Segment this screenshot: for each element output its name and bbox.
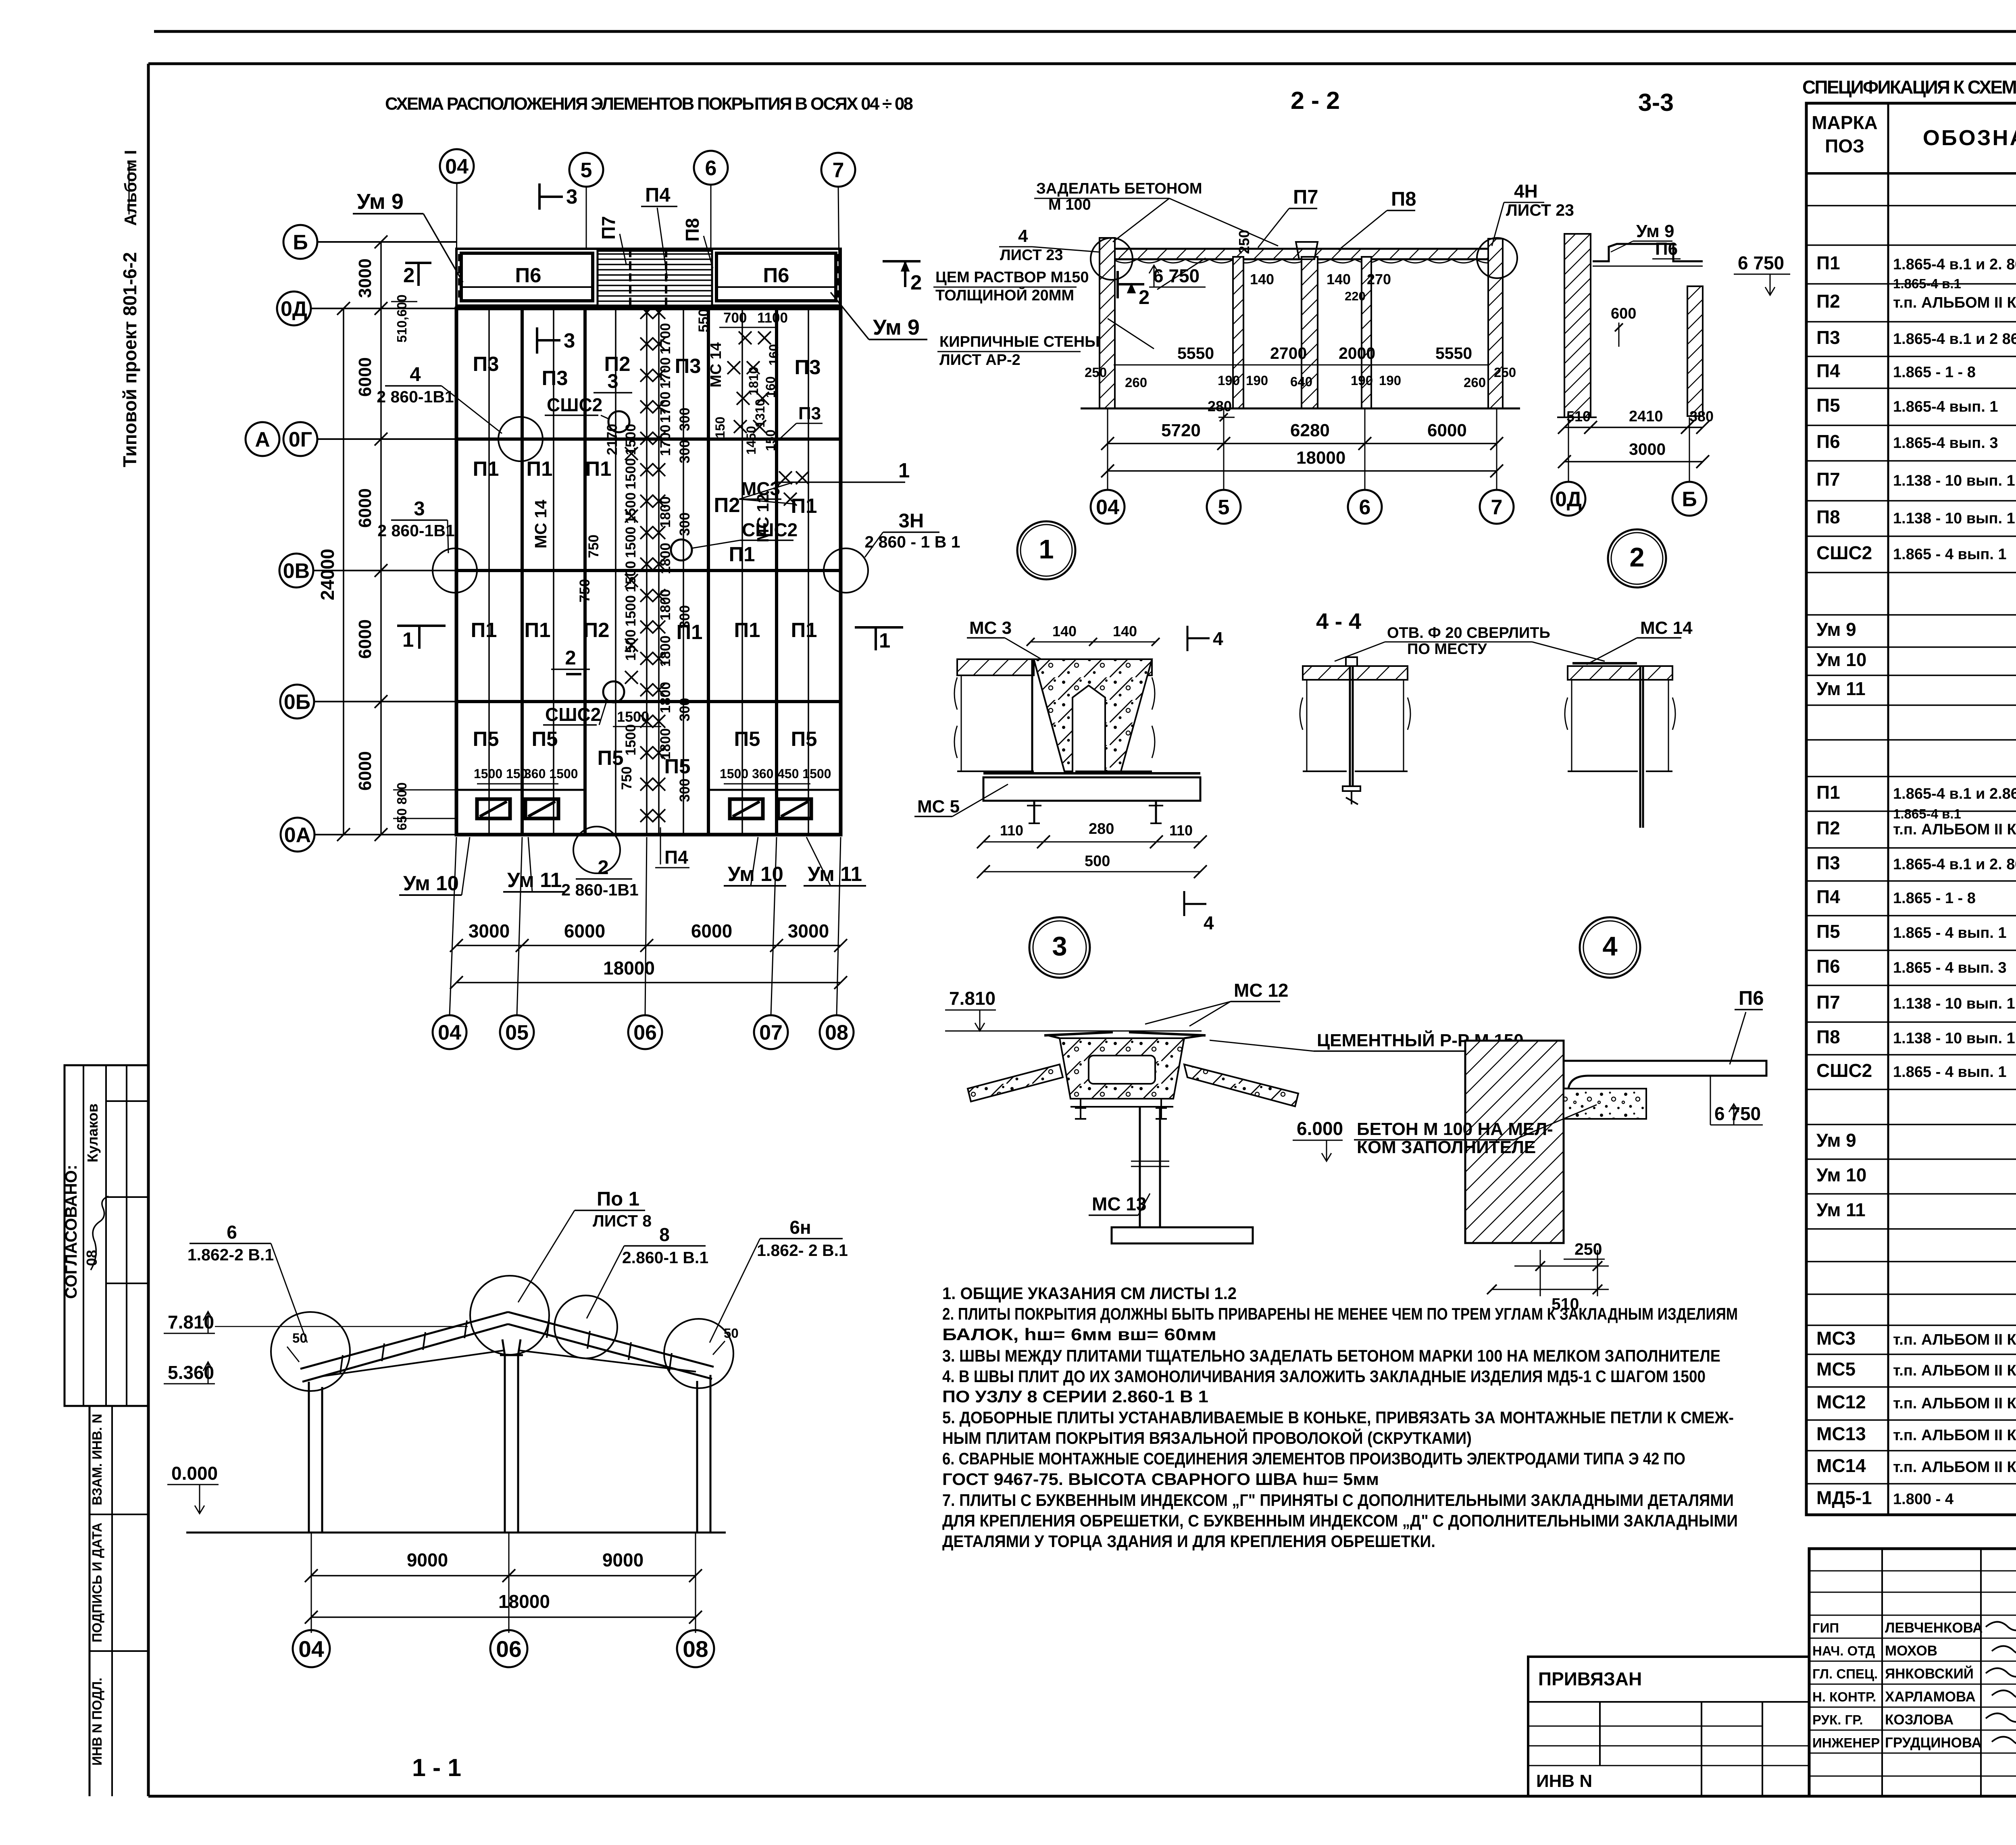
- svg-text:3: 3: [564, 329, 575, 352]
- bottom dimension chain 3000/6000/6000/3000: [456, 945, 841, 946]
- svg-text:П7: П7: [1293, 186, 1318, 208]
- svg-text:450 1500: 450 1500: [777, 766, 831, 781]
- svg-text:П1: П1: [1816, 782, 1840, 803]
- svg-text:П6: П6: [515, 264, 541, 287]
- svg-text:ЦЕМ РАСТВОР М150: ЦЕМ РАСТВОР М150: [935, 269, 1089, 286]
- svg-text:МС3: МС3: [1816, 1328, 1856, 1349]
- bolts under ridge: [1075, 1099, 1086, 1119]
- vertical drop lines to bottom axis circles: [450, 837, 456, 1015]
- dims 110/280/110/500: [983, 841, 1200, 843]
- svg-text:2 - 2: 2 - 2: [1291, 87, 1340, 114]
- svg-text:9000: 9000: [407, 1549, 448, 1570]
- svg-text:3: 3: [414, 498, 425, 520]
- svg-text:6.000: 6.000: [1297, 1118, 1343, 1139]
- row lines: [1806, 205, 2016, 206]
- section marker 1 left: [397, 625, 446, 627]
- svg-text:8: 8: [659, 1224, 670, 1245]
- svg-text:110: 110: [1169, 822, 1193, 839]
- svg-text:П8: П8: [1391, 188, 1416, 210]
- svg-text:1.865-4 вып. 3: 1.865-4 вып. 3: [1893, 435, 1998, 452]
- Привязан box: [1528, 1657, 1809, 1796]
- svg-text:ТОЛЩИНОЙ 20ММ: ТОЛЩИНОЙ 20ММ: [935, 286, 1074, 304]
- TITLE BLOCK (штамп): [1809, 1549, 2016, 1796]
- svg-text:110: 110: [1000, 822, 1023, 839]
- axis circle 0Б: [280, 685, 314, 718]
- svg-text:08: 08: [825, 1021, 848, 1045]
- svg-text:9000: 9000: [602, 1549, 644, 1570]
- svg-text:Типовой проект 801-6-2: Типовой проект 801-6-2: [119, 252, 140, 467]
- bottom axis circles 04 05 06 07 08: [433, 1015, 467, 1049]
- svg-text:270: 270: [1367, 271, 1391, 287]
- svg-text:1.865 - 4 вып. 1: 1.865 - 4 вып. 1: [1893, 925, 2007, 941]
- svg-text:МС13: МС13: [1816, 1423, 1866, 1444]
- svg-text:т.п. АЛЬБОМ II КЖИ: т.п. АЛЬБОМ II КЖИ МС3.000: [1893, 1331, 2016, 1348]
- svg-text:1.862-2 В.1: 1.862-2 В.1: [187, 1245, 274, 1264]
- svg-text:П5: П5: [473, 727, 499, 750]
- svg-text:5.360: 5.360: [168, 1362, 214, 1383]
- svg-text:ЛИСТ 8: ЛИСТ 8: [593, 1212, 652, 1230]
- svg-text:т.п. АЛЬБОМ II КЖИ-: т.п. АЛЬБОМ II КЖИ-МС5.000: [1893, 1362, 2016, 1379]
- svg-text:ПРИВЯЗАН: ПРИВЯЗАН: [1538, 1668, 1642, 1689]
- svg-text:1810: 1810: [746, 367, 761, 395]
- svg-text:КИРПИЧНЫЕ СТЕНЫ: КИРПИЧНЫЕ СТЕНЫ: [939, 333, 1100, 350]
- svg-text:750: 750: [619, 766, 635, 790]
- bottom chords (beam underside): [321, 1350, 505, 1376]
- svg-text:1310: 1310: [753, 399, 767, 427]
- svg-text:3. ШВЫ МЕЖДУ ПЛИТАМИ ТЩАТЕЛ: 3. ШВЫ МЕЖДУ ПЛИТАМИ ТЩАТЕЛЬНО ЗАДЕЛАТЬ …: [942, 1346, 1720, 1365]
- left roof plate: [957, 659, 1034, 675]
- svg-text:380: 380: [1689, 408, 1714, 425]
- svg-text:2700: 2700: [1270, 344, 1307, 362]
- axis circles 04 06 08: [293, 1630, 330, 1667]
- svg-text:П6: П6: [1655, 239, 1678, 259]
- svg-text:7.810: 7.810: [949, 988, 996, 1009]
- svg-text:1 - 1: 1 - 1: [412, 1754, 461, 1781]
- svg-text:МС 14: МС 14: [531, 500, 550, 548]
- approval box СОГЛАСОВАНО: [65, 1065, 148, 1406]
- svg-text:160: 160: [763, 376, 778, 398]
- node circle 2: [1608, 529, 1666, 587]
- thin plate joint lines: [488, 308, 490, 835]
- svg-text:2 860-1В1: 2 860-1В1: [561, 881, 638, 899]
- svg-text:140: 140: [1113, 623, 1137, 639]
- dims below 3-3: [1564, 427, 1703, 428]
- column lines: [1887, 103, 1889, 1515]
- svg-text:ПОДПИСЬ И ДАТА: ПОДПИСЬ И ДАТА: [90, 1522, 104, 1642]
- svg-text:Ум 11: Ум 11: [507, 868, 562, 891]
- node circle 1: [1017, 521, 1075, 579]
- svg-text:ИНВ N ПОДЛ.: ИНВ N ПОДЛ.: [90, 1678, 104, 1766]
- concrete pocket: [1564, 1089, 1646, 1119]
- support beam under ridge: [1070, 1106, 1173, 1108]
- svg-text:7: 7: [833, 159, 844, 182]
- right sloped roof slab: [1184, 1064, 1298, 1106]
- svg-text:250: 250: [1236, 230, 1252, 254]
- svg-text:190: 190: [1246, 373, 1268, 388]
- svg-text:Ум 9: Ум 9: [1636, 221, 1674, 241]
- svg-text:П5: П5: [1816, 921, 1840, 942]
- svg-text:0Б: 0Б: [284, 691, 310, 714]
- svg-text:П8: П8: [1816, 1027, 1840, 1047]
- svg-text:МС14: МС14: [1816, 1455, 1866, 1476]
- svg-text:НЫМ ПЛИТАМ ПОКРЫТИЯ ВЯЗАЛЬН: НЫМ ПЛИТАМ ПОКРЫТИЯ ВЯЗАЛЬНОЙ ПРОВОЛОКОЙ…: [942, 1428, 1472, 1447]
- svg-text:П3: П3: [794, 356, 821, 379]
- svg-text:2: 2: [403, 264, 414, 287]
- svg-text:1700: 1700: [658, 425, 673, 456]
- svg-text:5: 5: [1218, 496, 1230, 519]
- sheet top edge line: [154, 30, 2016, 33]
- svg-text:П3: П3: [1816, 852, 1840, 873]
- roof slabs (double chord lines): [300, 1312, 508, 1369]
- svg-text:2 860 - 1 В 1: 2 860 - 1 В 1: [864, 533, 960, 551]
- monolithic strip Ум9 outer contour: [456, 249, 841, 306]
- svg-text:ЛИСТ АР-2: ЛИСТ АР-2: [939, 352, 1020, 369]
- bottom support plate МС5: [983, 777, 1200, 801]
- svg-text:МС 14: МС 14: [708, 342, 725, 387]
- svg-text:150: 150: [763, 429, 778, 451]
- svg-text:ВЗАМ. ИНВ. N: ВЗАМ. ИНВ. N: [90, 1414, 104, 1505]
- node circle on right eave: [1477, 238, 1517, 278]
- embedded channel marks: [1031, 659, 1033, 771]
- svg-text:3000: 3000: [355, 258, 375, 298]
- svg-text:0А: 0А: [284, 824, 311, 847]
- svg-text:Ум 11: Ум 11: [1816, 678, 1866, 699]
- svg-text:0Д: 0Д: [1555, 488, 1582, 511]
- svg-text:П7: П7: [598, 216, 619, 240]
- svg-text:ДЛЯ КРЕПЛЕНИЯ ОБРЕШЕТКИ, С БУ: ДЛЯ КРЕПЛЕНИЯ ОБРЕШЕТКИ, С БУКВЕННЫМ ИНД…: [942, 1511, 1738, 1530]
- svg-text:т.п. АЛЬБОМ II КЖИ-: т.п. АЛЬБОМ II КЖИ- МС12.000: [1893, 1395, 2016, 1412]
- svg-text:1800: 1800: [658, 589, 673, 621]
- svg-text:07: 07: [759, 1021, 783, 1045]
- svg-text:П5: П5: [1816, 395, 1840, 416]
- svg-text:ПОЗ: ПОЗ: [1825, 135, 1864, 156]
- svg-text:640: 640: [1290, 374, 1312, 389]
- section mark 4 upper: [1187, 626, 1189, 651]
- svg-text:1500: 1500: [617, 708, 649, 725]
- svg-text:300: 300: [677, 605, 693, 629]
- svg-text:МАРКА: МАРКА: [1812, 112, 1878, 133]
- svg-text:140: 140: [1052, 623, 1077, 639]
- svg-text:А: А: [255, 428, 270, 452]
- ground line: [1081, 408, 1520, 410]
- svg-text:1800: 1800: [658, 635, 673, 667]
- right wall: [710, 1375, 712, 1533]
- axis row line 0В: [456, 569, 841, 572]
- П4 narrow strip joint lines with X marks: [646, 308, 648, 835]
- center column at axis 6 (with capital): [1302, 257, 1318, 408]
- svg-text:П2: П2: [714, 494, 740, 516]
- svg-text:5550: 5550: [1435, 344, 1472, 362]
- svg-text:4Н: 4Н: [1514, 181, 1538, 202]
- inventory strip (Взам.инв.N / Подпись и дата / Инв.N подл.): [89, 1406, 91, 1796]
- beam trapezoid with concrete speckle: [1034, 659, 1152, 771]
- svg-text:6 750: 6 750: [1714, 1103, 1761, 1124]
- svg-text:2410: 2410: [1629, 408, 1663, 425]
- svg-text:3: 3: [607, 371, 618, 392]
- svg-text:3-3: 3-3: [1638, 89, 1674, 116]
- svg-text:250: 250: [1085, 365, 1107, 380]
- svg-text:1.865 - 1 - 8: 1.865 - 1 - 8: [1893, 890, 1976, 907]
- plate anchor X marks, center strip: [640, 306, 653, 319]
- X marks in МС14 cluster top right: [739, 331, 752, 344]
- bottom dimension 18000: [456, 982, 841, 983]
- svg-text:1500: 1500: [623, 629, 639, 661]
- svg-text:1500: 1500: [623, 424, 639, 455]
- dim chain below 2-2: [1108, 443, 1497, 444]
- svg-text:П4: П4: [1816, 360, 1840, 381]
- svg-text:18000: 18000: [498, 1591, 550, 1612]
- П6 slab: [1564, 1061, 1766, 1089]
- svg-text:МС 14: МС 14: [1640, 618, 1693, 638]
- svg-text:6. СВАРНЫЕ МОНТАЖНЫЕ СОЕДИНЕ: 6. СВАРНЫЕ МОНТАЖНЫЕ СОЕДИНЕНИЯ ЭЛЕМЕНТО…: [942, 1449, 1685, 1468]
- dim chain 9000/9000: [311, 1533, 312, 1633]
- ground line: [186, 1532, 726, 1534]
- svg-text:0.000: 0.000: [171, 1463, 218, 1484]
- svg-text:СОГЛАСОВАНО:: СОГЛАСОВАНО:: [62, 1165, 80, 1299]
- svg-text:6000: 6000: [355, 751, 375, 791]
- axis circles below 2-2: [1107, 408, 1108, 489]
- svg-text:ЛИСТ 23: ЛИСТ 23: [1506, 201, 1574, 219]
- wall at axis 5: [1233, 257, 1243, 408]
- svg-text:П6: П6: [1816, 956, 1840, 977]
- svg-text:П4: П4: [664, 847, 688, 868]
- svg-text:БАЛОК, hш= 6мм вш= 60мм: БАЛОК, hш= 6мм вш= 60мм: [942, 1325, 1216, 1344]
- svg-text:Ум 9: Ум 9: [873, 315, 920, 339]
- svg-text:3Н: 3Н: [899, 510, 924, 532]
- svg-text:700: 700: [723, 310, 747, 326]
- svg-text:190: 190: [1379, 373, 1401, 388]
- svg-text:1500 360: 1500 360: [720, 766, 773, 781]
- svg-text:1.865-4 в.1 и 2.860-4.050 л.50: 1.865-4 в.1 и 2.860-4.050 л.50: [1893, 785, 2016, 802]
- svg-text:ЛИСТ 23: ЛИСТ 23: [1000, 247, 1063, 264]
- svg-text:ГОСТ 9467-75. ВЫСОТА СВАРНОГ: ГОСТ 9467-75. ВЫСОТА СВАРНОГО ШВА hш= 5м…: [942, 1470, 1379, 1489]
- svg-text:1: 1: [1039, 534, 1054, 564]
- svg-text:6 750: 6 750: [1738, 252, 1784, 273]
- svg-text:1. ОБЩИЕ УКАЗАНИЯ СМ ЛИСТЫ: 1. ОБЩИЕ УКАЗАНИЯ СМ ЛИСТЫ 1.2: [942, 1284, 1237, 1303]
- svg-text:СШС2: СШС2: [547, 394, 602, 415]
- svg-text:3000: 3000: [1629, 440, 1666, 458]
- svg-text:140: 140: [1250, 271, 1274, 287]
- svg-text:т.п. АЛЬБОМ II КЖИ-П2.00: т.п. АЛЬБОМ II КЖИ-П2.000: [1893, 821, 2016, 838]
- svg-text:НАЧ. ОТД: НАЧ. ОТД: [1812, 1643, 1875, 1658]
- plate field outline: [456, 308, 841, 835]
- left fixing: plates + vertical anchor: [1303, 666, 1408, 680]
- node circle 3: [1029, 917, 1090, 978]
- П5 bottom monolithic strip lines: [456, 789, 585, 791]
- node circle 4: [1580, 917, 1640, 978]
- dashed plate joints in band: [458, 254, 460, 300]
- svg-text:6000: 6000: [355, 357, 375, 397]
- svg-text:П4: П4: [1816, 886, 1840, 907]
- svg-text:П7: П7: [1816, 992, 1840, 1013]
- svg-text:Ум 10: Ум 10: [1816, 649, 1866, 670]
- svg-text:т.п. АЛЬБОМ II КЖИ-: т.п. АЛЬБОМ II КЖИ-МС14.000: [1893, 1459, 2016, 1476]
- svg-text:2. ПЛИТЫ ПОКРЫТИЯ ДОЛЖНЫ БЫ: 2. ПЛИТЫ ПОКРЫТИЯ ДОЛЖНЫ БЫТЬ ПРИВАРЕНЫ …: [942, 1304, 1738, 1323]
- signature squiggle: [91, 1196, 108, 1270]
- svg-text:18000: 18000: [603, 958, 655, 979]
- svg-text:1700: 1700: [658, 391, 673, 423]
- section mark 4 lower: [1183, 891, 1185, 916]
- svg-text:750: 750: [586, 535, 602, 558]
- svg-text:1100: 1100: [757, 310, 788, 326]
- svg-text:300: 300: [677, 512, 693, 536]
- Ум9/П6 cap profile: [1593, 244, 1703, 261]
- plate П6 left: [461, 253, 593, 301]
- section marker 3 top: [538, 183, 541, 210]
- svg-text:1.138 - 10 вып. 1: 1.138 - 10 вып. 1: [1893, 1030, 2015, 1047]
- svg-text:140: 140: [1327, 271, 1351, 287]
- axis circle 0А: [281, 818, 314, 852]
- axis circle 04 top: [440, 149, 474, 183]
- svg-text:7.810: 7.810: [168, 1312, 214, 1333]
- svg-text:7. ПЛИТЫ С БУКВЕННЫМ ИНДЕКСО: 7. ПЛИТЫ С БУКВЕННЫМ ИНДЕКСОМ „Г" ПРИНЯТ…: [942, 1491, 1734, 1510]
- svg-text:1800: 1800: [658, 728, 673, 760]
- svg-text:6000: 6000: [355, 488, 375, 528]
- svg-text:П2: П2: [1816, 291, 1840, 312]
- signatures squiggles: [1986, 1620, 2016, 1631]
- svg-text:260: 260: [1464, 375, 1486, 390]
- svg-text:П5: П5: [597, 746, 623, 769]
- svg-text:6000: 6000: [1427, 421, 1467, 440]
- svg-text:ЛЕВЧЕНКОВА: ЛЕВЧЕНКОВА: [1885, 1620, 1983, 1636]
- svg-text:6: 6: [227, 1222, 237, 1243]
- svg-text:1: 1: [879, 629, 890, 652]
- svg-text:ГИП: ГИП: [1812, 1620, 1839, 1635]
- svg-text:П5: П5: [734, 727, 760, 750]
- svg-text:П1: П1: [1816, 252, 1840, 273]
- svg-text:18000: 18000: [1296, 448, 1345, 468]
- svg-text:МС 3: МС 3: [969, 618, 1012, 638]
- svg-text:04: 04: [438, 1021, 461, 1045]
- left wall: [308, 1382, 310, 1533]
- svg-text:Альбом I: Альбом I: [121, 150, 140, 226]
- svg-text:П1: П1: [585, 457, 611, 480]
- svg-text:Б: Б: [293, 231, 308, 254]
- svg-text:П1: П1: [729, 543, 755, 566]
- svg-text:1500: 1500: [623, 492, 639, 524]
- ribbed plates П7/П8 hatched area: [598, 251, 712, 306]
- svg-text:190: 190: [1351, 373, 1373, 388]
- svg-text:2 860-1В1: 2 860-1В1: [377, 521, 454, 540]
- svg-text:7: 7: [1491, 496, 1503, 519]
- node circles on roof: [271, 1312, 350, 1391]
- svg-text:2: 2: [598, 857, 608, 879]
- svg-text:СШС2: СШС2: [1816, 1060, 1872, 1081]
- svg-text:1500: 1500: [623, 724, 639, 756]
- svg-text:ЯНКОВСКИЙ: ЯНКОВСКИЙ: [1885, 1666, 1974, 1682]
- svg-text:0В: 0В: [283, 560, 310, 583]
- parapet element right: [1687, 286, 1703, 416]
- svg-text:т.п. АЛЬБОМ II КЖИ: т.п. АЛЬБОМ II КЖИ-МС13.000: [1893, 1427, 2016, 1444]
- svg-text:160: 160: [766, 344, 781, 365]
- batten ticks on roof: [340, 1355, 343, 1373]
- svg-text:П1: П1: [471, 618, 497, 641]
- svg-text:2000: 2000: [1339, 344, 1375, 362]
- svg-text:Ум 11: Ум 11: [808, 862, 862, 885]
- svg-text:П1: П1: [791, 494, 817, 517]
- svg-text:190: 190: [1218, 373, 1240, 388]
- svg-text:П3: П3: [541, 367, 568, 389]
- svg-text:6000: 6000: [355, 619, 375, 659]
- svg-text:0Г: 0Г: [289, 428, 312, 452]
- axis row line 0Г: [456, 437, 841, 441]
- svg-text:П2: П2: [1816, 818, 1840, 839]
- svg-text:360 1500: 360 1500: [524, 766, 578, 781]
- svg-text:1.138 - 10 вып. 1: 1.138 - 10 вып. 1: [1893, 995, 2015, 1012]
- axis circle 7 top: [821, 153, 855, 187]
- svg-text:1: 1: [898, 459, 910, 482]
- svg-text:510: 510: [1566, 408, 1591, 425]
- anchor bolts: [1033, 802, 1035, 823]
- svg-text:П5: П5: [531, 727, 558, 750]
- svg-text:МД5-1: МД5-1: [1816, 1487, 1872, 1508]
- svg-text:1500: 1500: [623, 595, 639, 627]
- drawing frame border: [148, 62, 2016, 65]
- svg-text:4: 4: [1213, 628, 1223, 649]
- svg-text:Ум 9: Ум 9: [357, 189, 404, 214]
- svg-text:П6: П6: [763, 264, 789, 287]
- svg-text:600: 600: [1611, 305, 1636, 322]
- svg-text:2 860-1В1: 2 860-1В1: [377, 387, 454, 406]
- svg-text:1.862- 2 В.1: 1.862- 2 В.1: [757, 1241, 848, 1260]
- svg-text:1500: 1500: [623, 527, 639, 558]
- plate П6 right: [716, 253, 836, 301]
- svg-text:3000: 3000: [469, 920, 510, 941]
- svg-text:1: 1: [402, 628, 414, 651]
- svg-text:Ум 9: Ум 9: [1816, 1130, 1856, 1151]
- svg-text:5550: 5550: [1177, 344, 1214, 362]
- svg-text:ОТВ. Ф 20 СВЕРЛИТЬ: ОТВ. Ф 20 СВЕРЛИТЬ: [1387, 625, 1550, 641]
- svg-text:300: 300: [677, 779, 693, 802]
- svg-text:ИНВ N: ИНВ N: [1536, 1771, 1592, 1791]
- svg-text:4 - 4: 4 - 4: [1316, 608, 1361, 634]
- section marker 1 right: [855, 626, 903, 629]
- svg-text:КОЗЛОВА: КОЗЛОВА: [1885, 1712, 1954, 1728]
- left wall (hatched): [1100, 238, 1115, 408]
- svg-text:ПО МЕСТУ: ПО МЕСТУ: [1407, 641, 1487, 658]
- svg-text:П1: П1: [791, 618, 817, 641]
- svg-text:П8: П8: [1816, 506, 1840, 527]
- axis circle 6 top: [694, 151, 728, 185]
- svg-text:ОБОЗНАЧЕНИЕ: ОБОЗНАЧЕНИЕ: [1923, 126, 2016, 150]
- svg-text:СХЕМА РАСПОЛОЖЕНИЯ ЭЛЕМЕНТОВ: СХЕМА РАСПОЛОЖЕНИЯ ЭЛЕМЕНТОВ ПОКРЫТИЯ В …: [385, 94, 913, 114]
- column under ridge: [1139, 1107, 1141, 1227]
- svg-text:6000: 6000: [691, 920, 732, 941]
- ridge line (level): [945, 1031, 1202, 1032]
- svg-text:МС 12: МС 12: [754, 494, 772, 543]
- svg-text:08: 08: [683, 1637, 708, 1662]
- svg-text:06: 06: [633, 1021, 657, 1045]
- node circle on left eave: [1091, 238, 1133, 280]
- svg-text:6000: 6000: [564, 920, 605, 941]
- svg-text:П3: П3: [675, 354, 701, 377]
- svg-text:П1: П1: [473, 457, 499, 480]
- section marker 3 lower: [536, 327, 538, 354]
- svg-text:МС 12: МС 12: [1234, 980, 1288, 1001]
- svg-text:П8: П8: [682, 218, 703, 242]
- left sloped roof slab: [968, 1064, 1063, 1102]
- axis circle 5 top: [569, 153, 603, 187]
- svg-text:1450: 1450: [744, 426, 758, 454]
- svg-text:1.865 - 4 вып. 1: 1.865 - 4 вып. 1: [1893, 1064, 2007, 1081]
- svg-text:П3: П3: [473, 352, 499, 375]
- scalloped mortar line: [1113, 259, 1500, 263]
- section marker 2 right: [883, 260, 921, 262]
- svg-text:РУК. ГР.: РУК. ГР.: [1812, 1712, 1863, 1727]
- svg-text:ЗАДЕЛАТЬ БЕТОНОМ: ЗАДЕЛАТЬ БЕТОНОМ: [1036, 180, 1202, 197]
- svg-text:6: 6: [705, 157, 717, 180]
- svg-text:6: 6: [1359, 496, 1371, 519]
